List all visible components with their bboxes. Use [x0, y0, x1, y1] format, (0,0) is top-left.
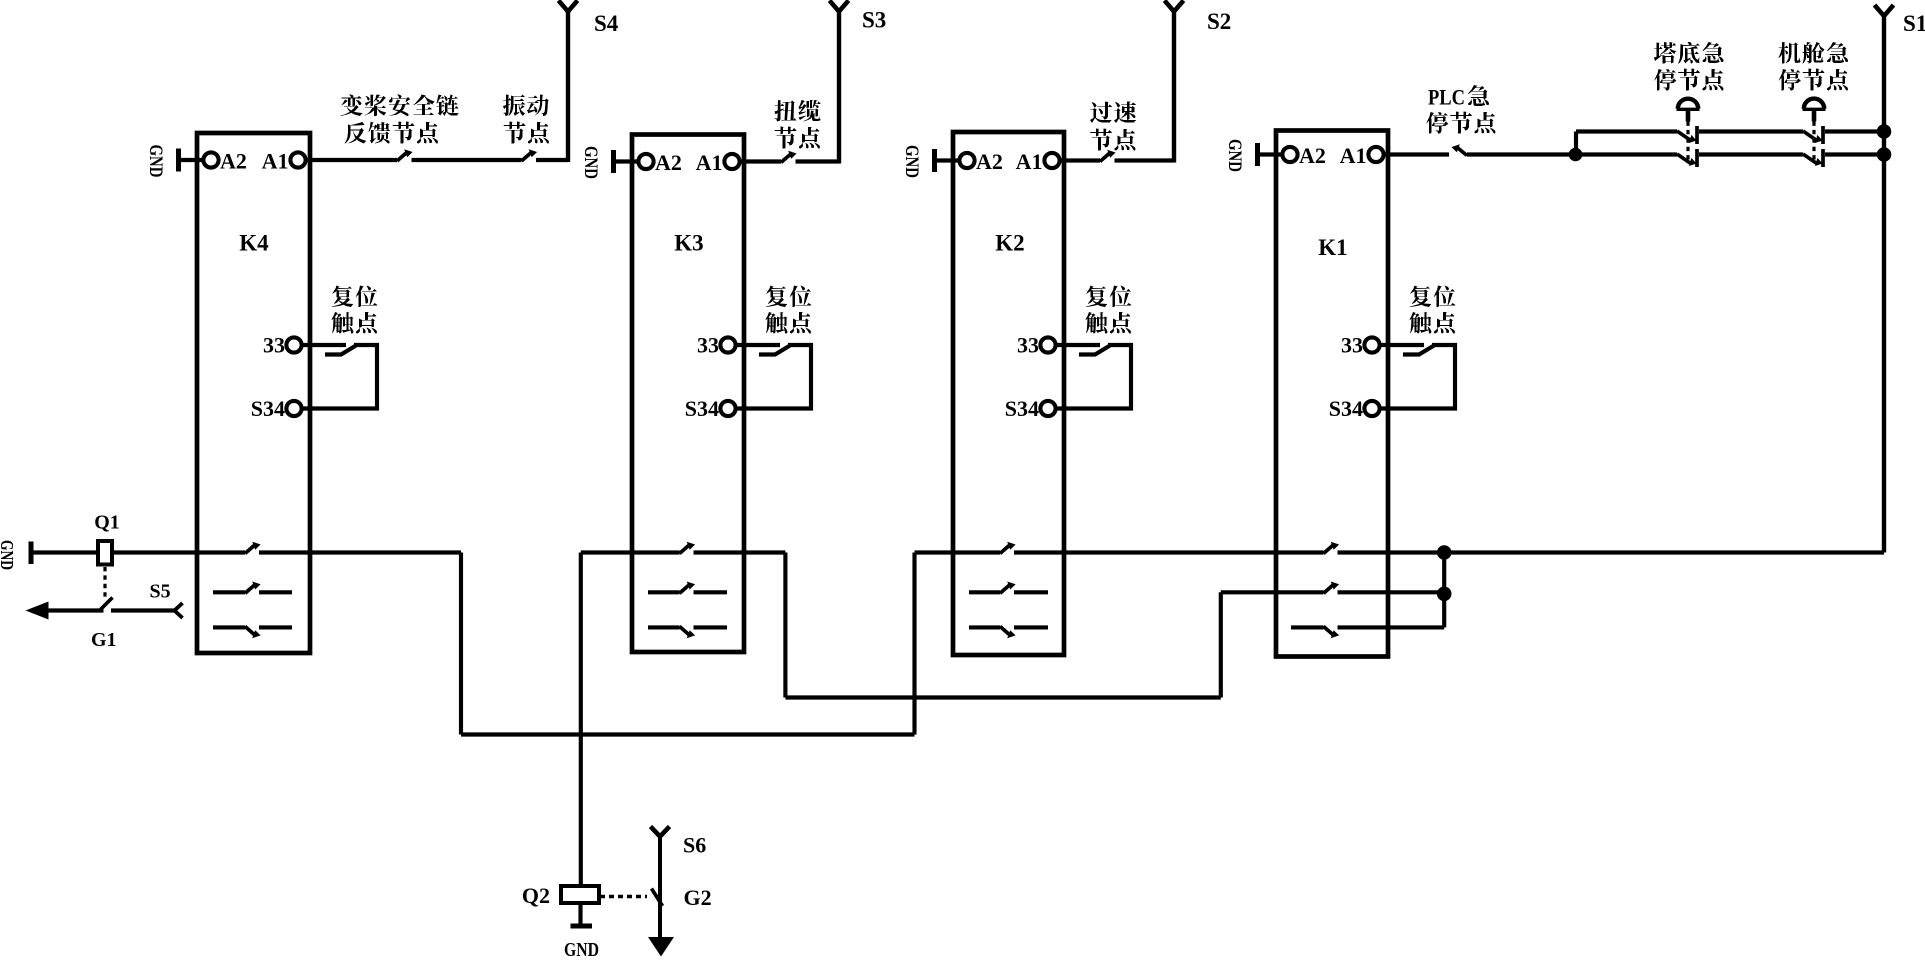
bus wire K2 to K1	[1014, 550, 1324, 554]
G1 arrow line	[45, 608, 104, 612]
junction dot row2	[1437, 587, 1452, 602]
ground tick K3	[611, 150, 616, 173]
nacelle emergency stop button NC contact bar at y=154.5	[1821, 149, 1825, 167]
nacelle emergency stop button NC contact bar at y=131.5	[1821, 126, 1825, 144]
terminal A1 K4	[290, 152, 305, 167]
svg-text:Q2: Q2	[522, 883, 550, 908]
S2 fork terminal	[1165, 1, 1184, 12]
wire to S3 riser	[796, 159, 840, 163]
svg-text:S5: S5	[150, 581, 171, 603]
wire to S2 riser	[1115, 158, 1175, 162]
svg-text:GND: GND	[0, 540, 17, 570]
svg-text:K1: K1	[1318, 235, 1347, 260]
lower branch wire seg2	[1699, 152, 1803, 156]
Q1 dashed actuator link	[103, 567, 106, 598]
terminal 33 K3	[720, 337, 735, 352]
ground tick K2	[932, 149, 937, 172]
svg-text:S34: S34	[1329, 396, 1363, 421]
svg-text:GND: GND	[1224, 139, 1245, 172]
bus wire into K2	[915, 550, 1001, 554]
svg-text:GND: GND	[901, 145, 922, 178]
upper branch wire seg1	[1576, 129, 1677, 133]
reset contact label K2	[1086, 286, 1132, 308]
K3 aux contact row3 line	[648, 625, 680, 629]
tower-base emergency stop button NC contact bar at y=131.5	[1695, 126, 1699, 144]
branch corner riser	[1574, 132, 1578, 155]
label overspeed line1	[1090, 102, 1136, 124]
wire Q1 to K4	[112, 550, 197, 554]
relay K4 coil box	[197, 133, 310, 653]
svg-text:G1: G1	[91, 629, 117, 651]
tower-base emergency stop button NC contact blade at y=154.5	[1677, 154, 1692, 164]
svg-text:G2: G2	[684, 885, 712, 910]
label vibration line2	[504, 122, 550, 144]
coil Q2	[561, 886, 599, 903]
wire riser to K3	[581, 550, 680, 554]
svg-text:GND: GND	[564, 939, 599, 961]
contact blade PLC emergency stop	[1451, 144, 1467, 155]
label tower-base estop line1	[1654, 42, 1724, 64]
terminal S34 K4	[286, 401, 301, 416]
tower-base emergency stop button stem	[1686, 109, 1691, 122]
left GND label	[0, 540, 17, 570]
reset contact loop K1	[1379, 345, 1455, 409]
relay K1 coil box	[1276, 131, 1388, 657]
reset contact wire from 33 K3	[735, 343, 780, 347]
svg-text:GND: GND	[580, 146, 601, 179]
ground tick K1	[1255, 143, 1260, 166]
nacelle emergency stop button mushroom head	[1804, 99, 1824, 109]
reset contact loop K2	[1055, 345, 1131, 409]
S4 riser wire	[566, 11, 570, 162]
label overspeed line2	[1090, 129, 1136, 151]
svg-text:Q1: Q1	[94, 512, 120, 534]
terminal 33 K2	[1040, 337, 1055, 352]
bus riser to K2	[912, 553, 916, 735]
terminal S34 K3	[720, 401, 735, 416]
svg-text:A1: A1	[262, 149, 289, 174]
reset contact label K3	[766, 286, 812, 308]
junction dot lower at S1	[1877, 147, 1892, 162]
svg-text:S1: S1	[1903, 11, 1925, 36]
GND label K4	[145, 145, 166, 178]
K1 aux contact row2 blade	[1324, 582, 1340, 594]
GND wire to K3 A2	[614, 159, 641, 163]
wire between contacts	[412, 158, 522, 162]
terminal A1 K2	[1044, 153, 1059, 168]
svg-text:A1: A1	[1016, 149, 1043, 174]
svg-text:K3: K3	[674, 231, 703, 256]
GND wire to K4 A2	[179, 158, 206, 162]
terminal S34 K1	[1364, 401, 1379, 416]
GND label K2	[901, 145, 922, 178]
S2 riser wire	[1172, 11, 1176, 163]
tower-base emergency stop button actuator dashed link	[1686, 122, 1689, 163]
K1 aux contact row3 blade	[1324, 626, 1340, 638]
reset contact blade K2	[1079, 346, 1110, 355]
Q2 dashed actuator link	[600, 895, 647, 898]
S3 fork terminal	[830, 1, 849, 12]
nacelle emergency stop button actuator dashed link	[1812, 122, 1815, 163]
svg-text:S34: S34	[251, 396, 285, 421]
terminal 33 K1	[1364, 337, 1379, 352]
svg-text:PLC: PLC	[1428, 85, 1465, 110]
label PLC jiting line2	[1426, 112, 1496, 134]
label pitch safety chain line1	[341, 95, 459, 117]
reset contact wire from 33 K4	[301, 343, 346, 347]
svg-text:K2: K2	[995, 231, 1024, 256]
reset contact loop K3	[735, 345, 811, 409]
contact blade vibration node	[522, 149, 538, 161]
K4 aux contact row3 blade	[245, 626, 261, 638]
nacelle emergency stop button NC contact blade at y=131.5	[1803, 131, 1818, 141]
K3 branch corner down	[783, 553, 787, 698]
label nacelle estop line1	[1779, 42, 1849, 64]
svg-text:S4: S4	[594, 11, 619, 36]
GND label K3	[580, 146, 601, 179]
K4 aux contact row2 line	[213, 590, 245, 594]
svg-text:33: 33	[1017, 333, 1039, 358]
svg-text:33: 33	[263, 333, 285, 358]
nacelle emergency stop button stem	[1812, 109, 1817, 122]
wire K3 contact out	[694, 550, 786, 554]
K2 main contact blade	[1000, 542, 1016, 554]
wire to S4 riser	[536, 158, 568, 162]
K4 main contact blade	[245, 542, 261, 554]
tower-base emergency stop button mushroom head	[1678, 99, 1698, 109]
K3 branch bottom run	[785, 695, 1220, 699]
contact blade cable-twist node	[781, 151, 797, 163]
bus bottom run	[461, 732, 915, 736]
svg-text:A1: A1	[696, 150, 723, 175]
K3 aux contact row3 blade	[680, 626, 696, 638]
wire PLC contact to junction	[1467, 152, 1576, 156]
S6 arrowhead	[648, 937, 674, 957]
S4 fork terminal	[559, 1, 578, 12]
bus corner down	[459, 553, 463, 735]
relay K3 coil box	[632, 135, 744, 653]
S5 wire	[111, 608, 174, 612]
label pitch safety chain line2	[345, 122, 439, 144]
wire K1 row2 to junction	[1338, 590, 1445, 594]
reset contact wire from 33 K2	[1055, 343, 1100, 347]
wire A1 K2 to overspeed contact	[1060, 158, 1101, 162]
svg-text:A2: A2	[1299, 143, 1326, 168]
svg-text:A2: A2	[976, 149, 1003, 174]
terminal 33 K4	[286, 337, 301, 352]
GND label K1	[1224, 139, 1245, 172]
terminal A2 K3	[638, 154, 653, 169]
terminal S34 K2	[1040, 401, 1055, 416]
reset contact blade K3	[759, 346, 790, 355]
wire GND to Q1	[31, 550, 98, 554]
junction dot upper at S1	[1877, 124, 1892, 139]
junction dot row1	[1437, 545, 1452, 560]
S3 riser wire	[837, 11, 841, 164]
coil Q1	[98, 541, 112, 565]
nacelle emergency stop button NC contact blade at y=154.5	[1803, 154, 1818, 164]
bus wire into K4	[197, 550, 245, 554]
reset contact loop K4	[301, 345, 377, 409]
reset contact blade K4	[325, 346, 356, 355]
svg-text:33: 33	[1341, 333, 1363, 358]
reset contact blade K1	[1403, 346, 1434, 355]
K1 aux contact row3 line	[1291, 625, 1324, 629]
K2 aux contact row3 blade	[1000, 626, 1016, 638]
ground tick K4	[176, 149, 181, 172]
reset contact wire from 33 K1	[1379, 343, 1424, 347]
S5 fork terminal	[175, 603, 183, 618]
Q2 riser wire	[579, 553, 583, 887]
contact blade overspeed node	[1100, 150, 1116, 162]
S6 wire	[658, 837, 662, 940]
wire into K1 row2	[1221, 590, 1324, 594]
K2 aux contact row3 line	[969, 625, 1000, 629]
wire A1 K3 to torsion contact	[740, 159, 782, 163]
terminal A1 K1	[1368, 147, 1383, 162]
label tower-base estop line2	[1654, 69, 1724, 91]
contact blade pitch safety chain	[397, 149, 413, 161]
K3 branch riser	[1219, 592, 1223, 697]
S6 fork terminal	[651, 827, 670, 837]
terminal A2 K1	[1282, 147, 1297, 162]
label cable twist line1	[775, 100, 821, 122]
K1 main contact blade	[1324, 542, 1340, 554]
upper branch wire seg3	[1825, 129, 1882, 133]
junction dot lower branch	[1569, 148, 1583, 162]
junction riser row1-row3	[1442, 553, 1446, 628]
svg-text:A2: A2	[220, 149, 247, 174]
svg-text:A1: A1	[1340, 143, 1367, 168]
svg-text:S34: S34	[1005, 396, 1039, 421]
Q2 ground bar	[571, 924, 593, 929]
svg-text:S34: S34	[685, 396, 719, 421]
GND wire to K2 A2	[935, 158, 962, 162]
svg-text:33: 33	[697, 333, 719, 358]
K2 aux contact row2 line	[969, 590, 1000, 594]
label nacelle estop line2	[1779, 69, 1849, 91]
GND wire to K1 A2	[1258, 152, 1285, 156]
K4 aux contact row2 blade	[245, 582, 261, 594]
K3 aux contact row2 blade	[680, 582, 696, 594]
terminal A1 K3	[724, 154, 739, 169]
terminal A2 K2	[959, 153, 974, 168]
G2 switch blade	[652, 889, 663, 907]
wire A1 K1 to PLC contact	[1384, 152, 1450, 156]
K2 aux contact row2 blade	[1000, 582, 1016, 594]
S1 riser wire	[1882, 16, 1886, 553]
wire A1 K4 to pitch-chain contact	[306, 158, 398, 162]
G1 switch blade	[101, 598, 113, 610]
K3 main contact blade	[680, 542, 696, 554]
lower branch wire seg1	[1576, 152, 1678, 156]
svg-text:S3: S3	[862, 8, 886, 33]
reset contact label K1	[1410, 286, 1456, 308]
tower-base emergency stop button NC contact blade at y=131.5	[1677, 131, 1692, 141]
svg-text:S6: S6	[683, 833, 706, 858]
bus wire K1 to S1 corner	[1338, 550, 1885, 554]
svg-text:GND: GND	[145, 145, 166, 178]
svg-text:S2: S2	[1207, 9, 1231, 34]
K4 aux contact row3 line	[213, 625, 245, 629]
left ground tick	[29, 542, 34, 565]
lower branch wire seg3	[1825, 152, 1882, 156]
svg-text:A2: A2	[655, 150, 682, 175]
K3 aux contact row2 line	[648, 590, 680, 594]
relay K2 coil box	[953, 132, 1064, 655]
label cable twist line2	[775, 127, 821, 149]
upper branch wire seg2	[1699, 129, 1803, 133]
label vibration line1	[503, 95, 549, 117]
Q2 ground stem	[578, 903, 582, 926]
S1 fork terminal	[1875, 5, 1894, 16]
terminal A2 K4	[203, 152, 218, 167]
bus wire K4 to corner	[259, 550, 461, 554]
tower-base emergency stop button NC contact bar at y=154.5	[1695, 149, 1699, 167]
svg-text:K4: K4	[239, 231, 269, 256]
reset contact label K4	[332, 286, 378, 308]
G1 arrowhead	[26, 602, 49, 620]
